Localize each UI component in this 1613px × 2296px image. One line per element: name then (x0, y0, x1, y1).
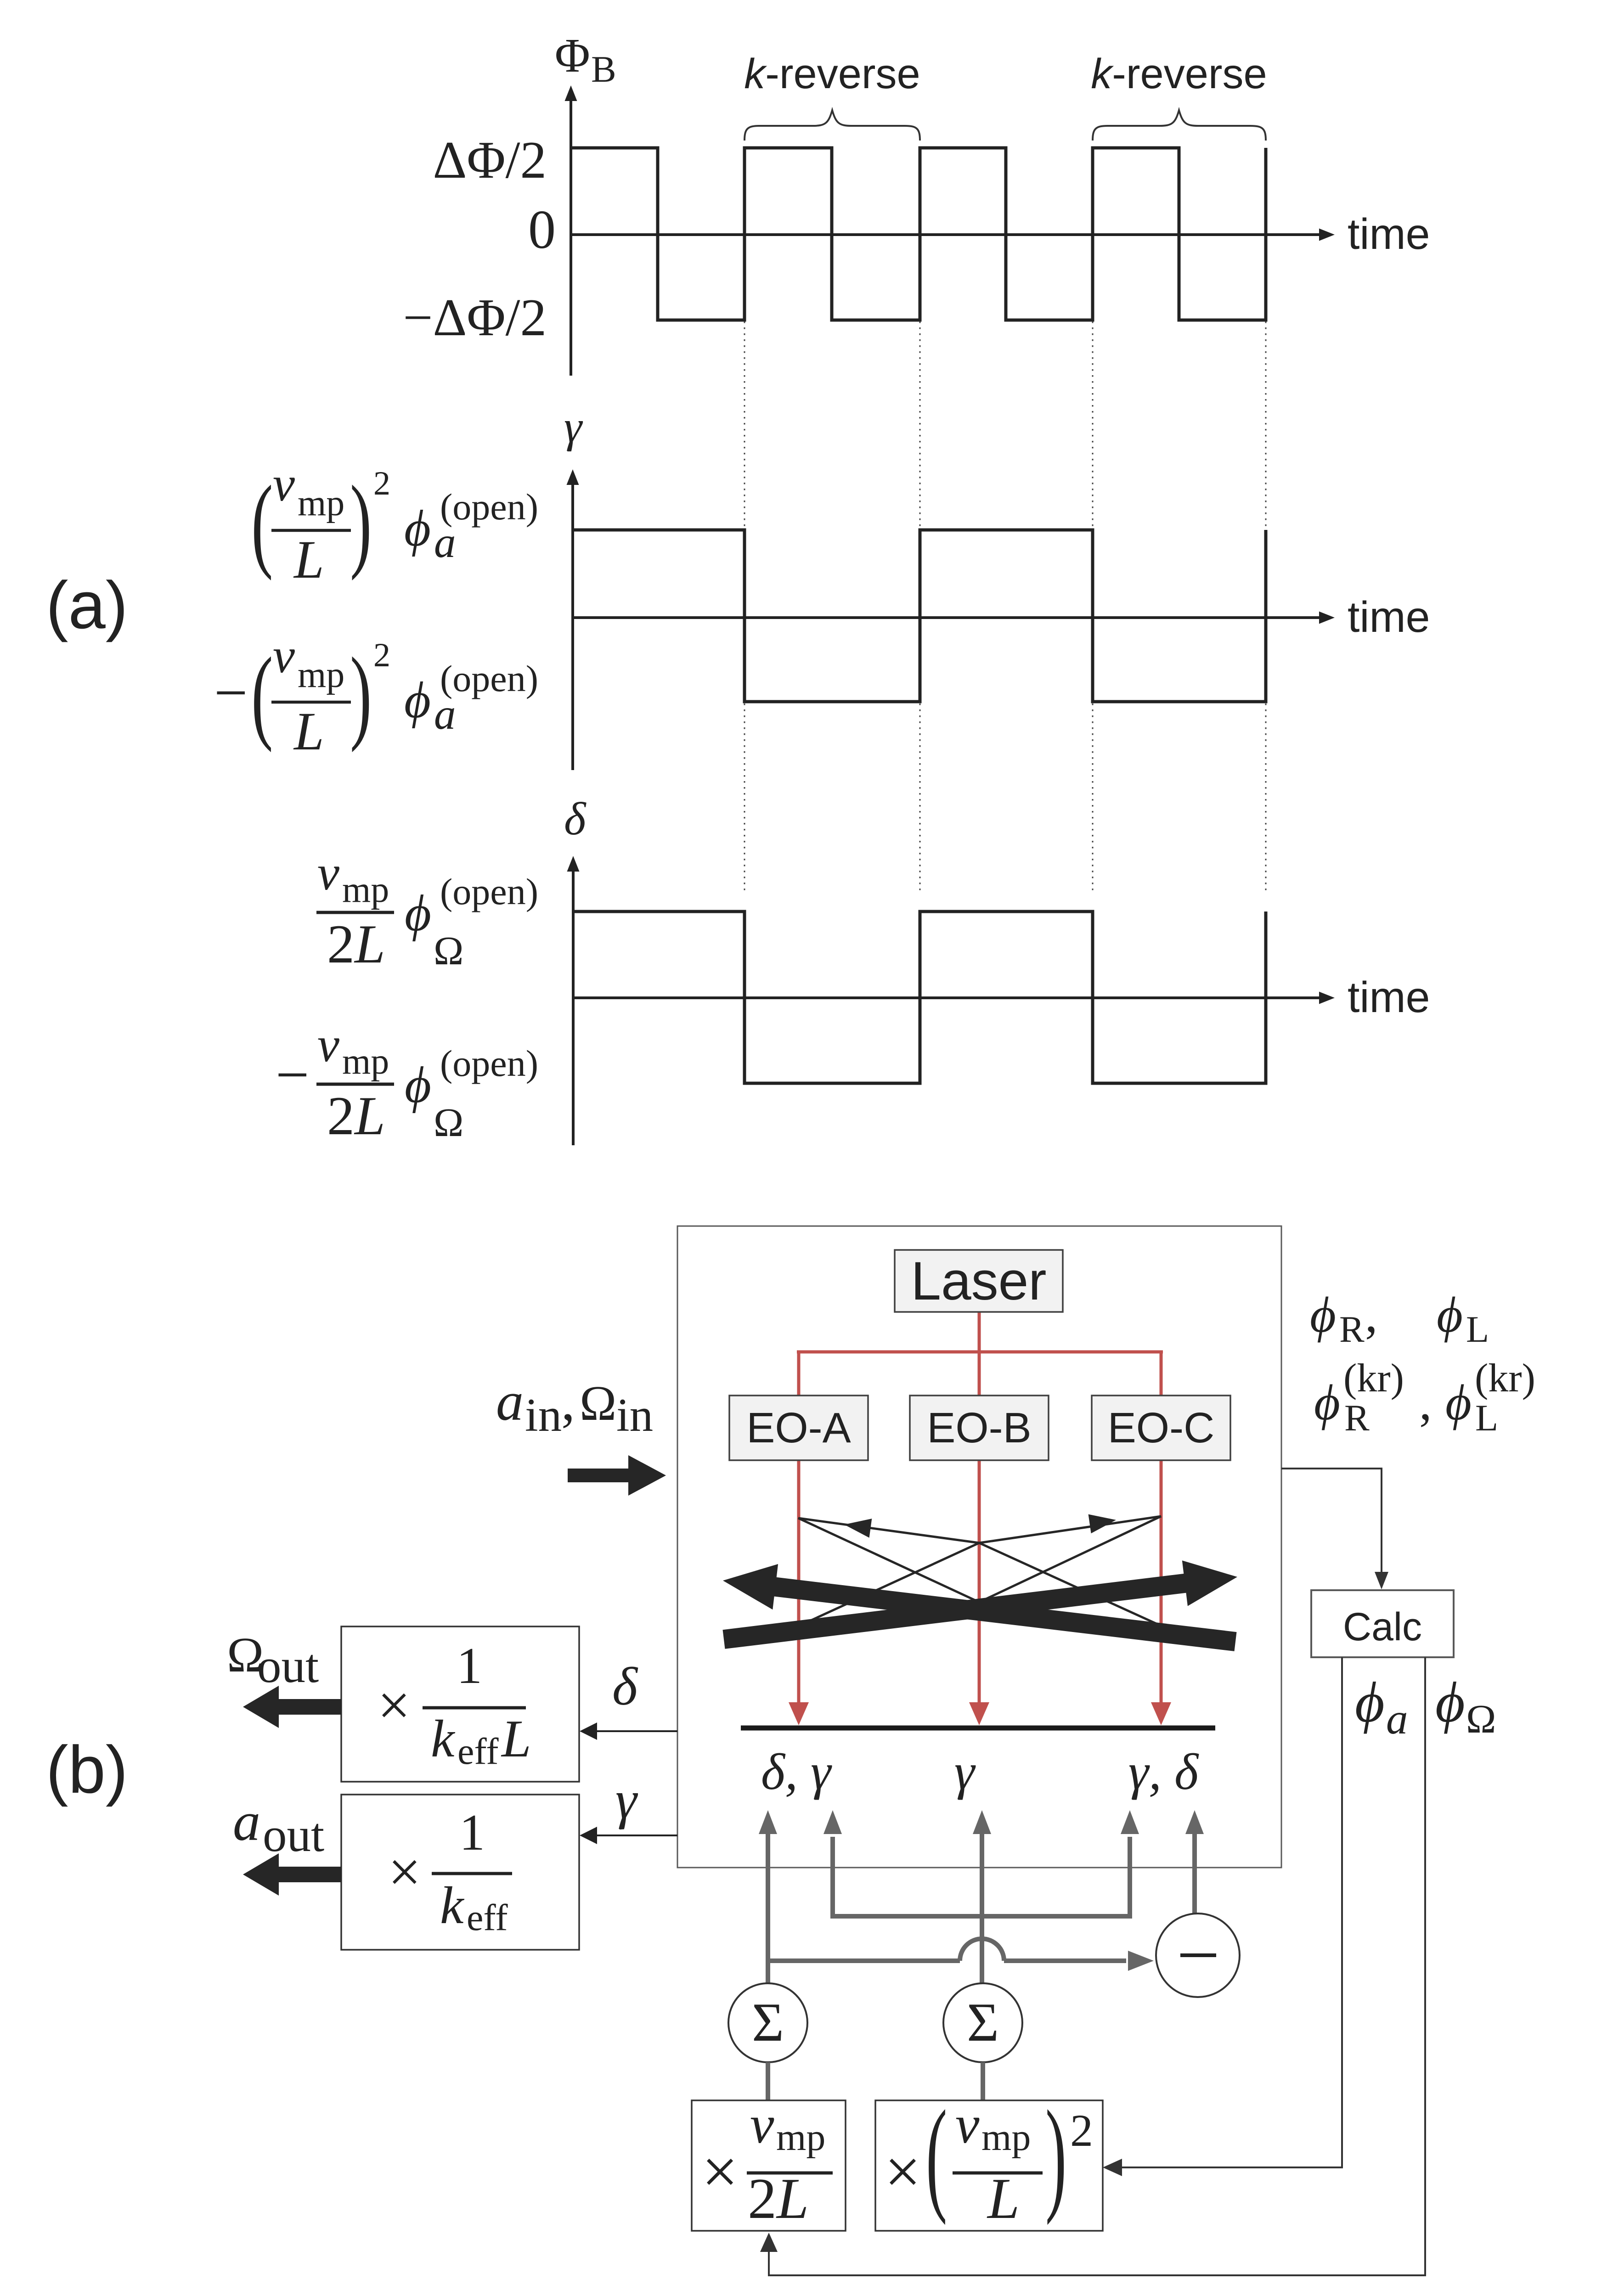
svg-text:v: v (955, 2094, 980, 2155)
output box x 1/keff (341, 1795, 579, 1950)
svg-text:EO-C: EO-C (1108, 1404, 1215, 1452)
minus circle (1156, 1913, 1240, 1997)
svg-text:(open): (open) (440, 871, 538, 912)
svg-text:ϕ: ϕ (1314, 1374, 1340, 1430)
svg-text:γ: γ (954, 1744, 976, 1801)
svg-text:v: v (317, 1018, 339, 1072)
svg-text:,: , (1419, 1374, 1432, 1430)
gray sum line with hop (768, 1958, 960, 1963)
EO-C box (1092, 1396, 1230, 1460)
scale box x v_mp/2L (692, 2100, 846, 2231)
svg-text:×: × (378, 1673, 411, 1738)
svg-text:ϕ: ϕ (1310, 1287, 1336, 1343)
svg-text:×: × (885, 2136, 921, 2207)
thin beam A1-B1 (798, 1518, 979, 1543)
svg-text:a: a (434, 518, 456, 567)
input thick arrow (568, 1455, 666, 1496)
thin beam A1-M (798, 1518, 979, 1602)
plot2 lower level label (214, 629, 538, 761)
svg-text:1: 1 (459, 1804, 485, 1861)
dotted sync line x=2003 (919, 321, 921, 893)
dotted sync line x=1621 (744, 321, 745, 893)
svg-text:−: − (214, 660, 248, 726)
svg-text:L: L (293, 529, 324, 590)
red beam below EO-B (978, 1460, 981, 1705)
svg-text:in: in (616, 1389, 653, 1441)
svg-text:×: × (388, 1840, 421, 1904)
label phi_R, phi_L (1310, 1287, 1489, 1350)
red fiber to EO-A (797, 1351, 801, 1396)
gray drive line x=2601 (1192, 1833, 1197, 1913)
thin beam M-C2 (979, 1602, 1162, 1626)
svg-text:,: , (1365, 1287, 1378, 1343)
red fiber splitter horizontal (797, 1351, 1163, 1354)
svg-text:k-reverse: k-reverse (744, 51, 920, 97)
gamma output line (595, 1835, 677, 1836)
phi_Omega feedback line (769, 1657, 1425, 2275)
scale box x (v_mp/L)^2 (875, 2100, 1103, 2231)
svg-text:2: 2 (373, 465, 390, 502)
svg-text:1: 1 (457, 1638, 482, 1694)
svg-text:ϕ: ϕ (1435, 1671, 1465, 1734)
plot1 square wave (571, 148, 1266, 320)
svg-text:mp: mp (342, 870, 389, 910)
red beam below EO-C (1160, 1460, 1163, 1705)
svg-text:Calc: Calc (1343, 1605, 1422, 1649)
svg-text:v: v (750, 2094, 774, 2155)
svg-text:out: out (257, 1639, 319, 1693)
thick atom beam right-pointing (723, 1560, 1238, 1649)
gray drive line x=2138 (980, 1833, 984, 1984)
svg-text:out: out (263, 1808, 324, 1862)
mirror baseline (741, 1726, 1215, 1731)
svg-text:time: time (1348, 593, 1430, 642)
k-reverse brace 1 (744, 110, 920, 141)
svg-text:v: v (317, 846, 339, 900)
plot1 time axis (571, 233, 1320, 236)
sigma1 stem (766, 2062, 770, 2100)
svg-text:v: v (273, 457, 295, 512)
svg-text:ϕ: ϕ (1437, 1287, 1463, 1343)
svg-text:time: time (1348, 210, 1430, 259)
svg-text:mp: mp (981, 2116, 1031, 2159)
plot2 square wave (573, 530, 1266, 702)
svg-text:γ: γ (564, 402, 583, 452)
svg-text:δ, γ: δ, γ (761, 1744, 832, 1801)
svg-text:Ω: Ω (434, 1101, 463, 1145)
plot2 y-axis (571, 476, 574, 770)
svg-text:(: ( (926, 2084, 947, 2226)
svg-text:(kr): (kr) (1475, 1356, 1535, 1401)
label phi_R^(kr), phi_L^(kr) (1314, 1356, 1535, 1439)
svg-text:): ) (1045, 2084, 1066, 2226)
Omega_out thick arrow (243, 1686, 341, 1728)
EO-A box (729, 1396, 868, 1460)
svg-text:(: ( (251, 464, 273, 581)
Calc box (1311, 1590, 1454, 1657)
svg-text:(open): (open) (440, 1042, 538, 1084)
dotted sync line x=2379 (1092, 321, 1094, 893)
svg-text:B: B (591, 48, 616, 90)
svg-text:δ: δ (564, 793, 587, 845)
phase readout line to Calc (1281, 1469, 1382, 1580)
svg-text:k: k (440, 1876, 465, 1935)
svg-text:): ) (350, 636, 372, 753)
EO-B box (910, 1396, 1049, 1460)
thin beam arrowhead left (844, 1519, 872, 1538)
svg-text:2: 2 (373, 636, 390, 674)
sigma2 stem (981, 2062, 985, 2100)
svg-text:2L: 2L (327, 1085, 385, 1146)
svg-text:2: 2 (1070, 2105, 1093, 2156)
plot3 upper level label (316, 846, 538, 974)
plot3 time axis (573, 996, 1320, 999)
svg-text:ϕ: ϕ (1355, 1671, 1385, 1734)
svg-text:(kr): (kr) (1343, 1356, 1404, 1401)
svg-text:2L: 2L (748, 2167, 809, 2231)
svg-text:ϕ: ϕ (404, 672, 431, 729)
svg-text:eff: eff (457, 1730, 499, 1772)
svg-text:Ω: Ω (434, 929, 463, 974)
thin beam arrowhead right (1088, 1514, 1116, 1534)
plot1 y-axis (570, 92, 572, 376)
svg-text:Laser: Laser (911, 1251, 1046, 1311)
plot3 square wave (573, 912, 1266, 1083)
thin beam B1-C2 (979, 1543, 1162, 1626)
svg-text:δ: δ (612, 1656, 638, 1716)
svg-text:a: a (496, 1371, 524, 1432)
svg-text:EO-B: EO-B (927, 1404, 1031, 1452)
svg-text:,: , (561, 1371, 575, 1432)
svg-text:2L: 2L (327, 913, 385, 974)
dotted sync line x=2756 (1265, 321, 1267, 893)
svg-text:eff: eff (467, 1896, 508, 1938)
svg-text:0: 0 (528, 199, 556, 260)
svg-text:(: ( (251, 636, 273, 753)
svg-text:a: a (233, 1791, 260, 1852)
svg-text:(a): (a) (46, 568, 128, 642)
svg-text:L: L (293, 701, 324, 761)
svg-text:γ, δ: γ, δ (1128, 1744, 1199, 1801)
gray U connector (833, 1837, 1130, 1916)
svg-text:γ: γ (615, 1770, 638, 1830)
red fiber from Laser (978, 1312, 981, 1352)
Laser box (895, 1250, 1063, 1312)
plot2 upper level label (251, 457, 538, 590)
svg-text:mp: mp (298, 483, 344, 523)
svg-text:R: R (1339, 1308, 1365, 1350)
svg-text:k-reverse: k-reverse (1091, 51, 1267, 97)
plot3 lower level label (276, 1018, 538, 1146)
svg-text:ϕ: ϕ (404, 500, 431, 557)
svg-text:v: v (273, 629, 295, 683)
red fiber to EO-C (1160, 1351, 1163, 1396)
svg-text:time: time (1348, 973, 1430, 1022)
red fiber to EO-B (978, 1351, 981, 1396)
summer circle 1 (728, 1983, 807, 2062)
delta output line (595, 1730, 677, 1732)
sensor head outer box (677, 1226, 1281, 1868)
svg-text:EO-A: EO-A (746, 1404, 851, 1452)
svg-text:Σ: Σ (967, 1992, 999, 2053)
gray drive line x=1672 (766, 1833, 770, 1983)
k-reverse brace 2 (1093, 110, 1266, 141)
phi_a feedback line (1111, 1657, 1342, 2167)
plot3 y-axis (572, 862, 575, 1145)
svg-text:ϕ: ϕ (405, 1057, 431, 1114)
svg-text:mp: mp (298, 655, 344, 695)
thin beam M-A2 (799, 1602, 979, 1626)
svg-text:ϕ: ϕ (405, 885, 431, 942)
svg-text:): ) (350, 464, 372, 581)
svg-text:(b): (b) (46, 1732, 128, 1807)
svg-text:mp: mp (776, 2116, 825, 2159)
svg-text:k: k (431, 1710, 456, 1768)
svg-text:ϕ: ϕ (1445, 1374, 1472, 1430)
thin beam B1-A2 (799, 1543, 979, 1626)
svg-text:Σ: Σ (752, 1992, 784, 2053)
svg-text:L: L (501, 1710, 531, 1768)
svg-text:mp: mp (342, 1041, 389, 1082)
svg-text:L: L (1466, 1308, 1489, 1350)
summer circle 2 (943, 1983, 1022, 2062)
svg-text:in: in (525, 1389, 562, 1441)
a_out thick arrow (243, 1853, 341, 1896)
svg-text:Ω: Ω (580, 1376, 616, 1431)
svg-text:a: a (1386, 1694, 1408, 1743)
svg-text:Φ: Φ (555, 28, 590, 82)
thin beam C1-M (979, 1516, 1161, 1602)
svg-text:−ΔΦ/2: −ΔΦ/2 (403, 288, 547, 347)
svg-text:a: a (434, 690, 456, 738)
svg-text:−: − (276, 1042, 309, 1108)
red beam below EO-A (797, 1460, 801, 1705)
thin beam B1-C1 (979, 1516, 1161, 1543)
output box x 1/(keff L) (341, 1626, 579, 1782)
svg-text:ΔΦ/2: ΔΦ/2 (433, 131, 547, 189)
svg-text:R: R (1344, 1397, 1370, 1439)
svg-text:×: × (702, 2136, 738, 2207)
svg-text:L: L (987, 2167, 1020, 2231)
svg-text:Ω: Ω (1466, 1697, 1496, 1742)
svg-text:L: L (1475, 1397, 1498, 1439)
plot2 time axis (573, 616, 1320, 619)
thick atom beam left-pointing (723, 1564, 1237, 1651)
